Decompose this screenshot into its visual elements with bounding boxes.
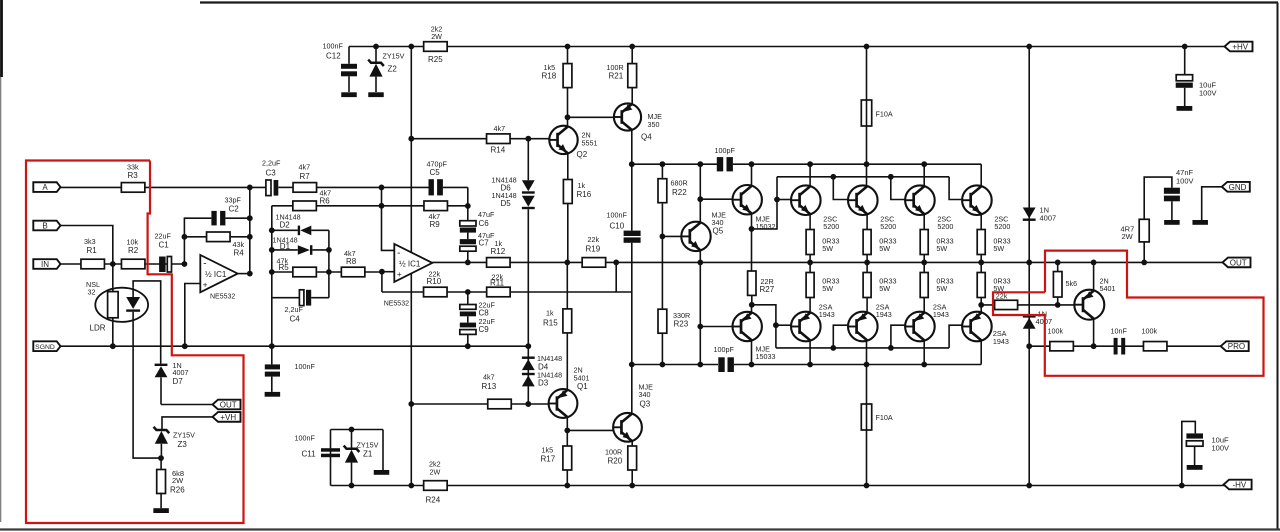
node D2 left — [269, 227, 275, 233]
node D3 join — [525, 401, 531, 407]
node C15 top — [1182, 44, 1188, 50]
svg-text:½ IC1: ½ IC1 — [399, 259, 421, 268]
svg-text:C3: C3 — [266, 169, 277, 178]
svg-text:R22: R22 — [672, 188, 687, 197]
node Q8 collector — [807, 161, 813, 167]
svg-text:+: + — [397, 269, 402, 279]
svg-text:1k: 1k — [546, 308, 554, 317]
node R22 top — [660, 161, 666, 167]
svg-text:4k7: 4k7 — [483, 373, 495, 382]
svg-text:680R: 680R — [671, 179, 688, 188]
svg-text:1943: 1943 — [933, 310, 949, 319]
node Z1 top — [349, 427, 355, 433]
opto LED — [132, 288, 134, 297]
diode D8 1N4007 upper clamp — [1028, 47, 1030, 263]
wire SGND line — [61, 345, 529, 347]
node C7 output — [465, 260, 471, 266]
node R17 bottom — [564, 483, 570, 489]
node Q9 base feed — [830, 174, 836, 180]
svg-text:4k7: 4k7 — [299, 163, 311, 172]
wire feedback line — [382, 291, 616, 293]
opto NSL32 LDR — [112, 264, 114, 288]
capacitor C10 100nF — [631, 164, 633, 230]
svg-text:1943: 1943 — [819, 310, 835, 319]
wire R7 node to R6 node — [381, 187, 383, 205]
wire op-amp1 non-inverting to SGND — [185, 284, 201, 347]
svg-text:R1: R1 — [87, 246, 98, 255]
svg-text:R15: R15 — [543, 319, 558, 328]
ground Z2 — [368, 92, 384, 97]
capacitor C5 470pF — [429, 179, 434, 195]
op-amp U1B half NE5532 — [394, 244, 432, 282]
svg-text:R8: R8 — [346, 257, 357, 266]
svg-text:+HV: +HV — [1232, 43, 1248, 52]
svg-text:C9: C9 — [479, 325, 490, 334]
svg-text:1943: 1943 — [876, 310, 892, 319]
svg-text:100nF: 100nF — [607, 210, 628, 219]
resistor R31 100k — [1143, 342, 1167, 351]
svg-text:SGND: SGND — [35, 344, 55, 351]
resistor R emitter 0R33 5W lower Q14 — [866, 262, 868, 272]
svg-text:NE5532: NE5532 — [210, 293, 235, 300]
node Z3 R26 — [158, 455, 164, 461]
svg-text:LDR: LDR — [90, 324, 106, 333]
resistor R emitter 0R33 5W lower Q16 — [980, 262, 982, 272]
diode D4 1N4148 — [522, 357, 535, 359]
node op-amp1 output — [247, 271, 253, 277]
svg-text:5551: 5551 — [582, 138, 598, 147]
node Q3 collector rail — [629, 362, 635, 368]
wire C5 R9 right node — [467, 187, 469, 221]
node R9 right — [465, 203, 471, 209]
wire D5 to SGND — [527, 209, 529, 346]
svg-text:B: B — [42, 222, 47, 231]
wire Q4 base — [568, 116, 615, 118]
resistor R17 1k5 — [563, 446, 572, 470]
svg-text:-: - — [203, 259, 206, 270]
node A feedback junction — [247, 185, 253, 191]
resistor R7 4k7 — [293, 183, 317, 193]
wire op-amp1 feedback vertical — [184, 218, 211, 264]
resistor R10 22k — [424, 287, 448, 297]
fuse F2 F10A lower — [866, 365, 868, 486]
svg-text:100k: 100k — [1142, 326, 1158, 335]
node Q9 collector F10A — [864, 161, 870, 167]
capacitor C4 2.2uF — [272, 297, 300, 299]
connector B — [33, 221, 60, 231]
svg-text:R16: R16 — [577, 190, 592, 199]
capacitor C2 33pF — [211, 211, 216, 226]
diode D1 1N4148 — [272, 249, 298, 251]
resistor R1 3k3 — [81, 259, 105, 269]
capacitor C17 100pF lower — [718, 357, 724, 372]
connector +HV — [1225, 42, 1253, 52]
wire op-amp2 plus stub — [382, 271, 394, 273]
capacitor C13 100nF decoupling — [271, 346, 273, 364]
resistor R8 4k7 — [341, 267, 365, 277]
svg-text:100nF: 100nF — [295, 434, 316, 443]
svg-text:1k5: 1k5 — [542, 446, 554, 455]
svg-text:OUT: OUT — [1230, 258, 1247, 267]
svg-text:15033: 15033 — [756, 352, 776, 361]
svg-text:C5: C5 — [430, 168, 441, 177]
wire VAS upper rail — [632, 163, 717, 165]
transistor Q6 MJE15032 driver — [733, 185, 762, 214]
svg-text:100pF: 100pF — [715, 146, 736, 155]
svg-text:4k7: 4k7 — [494, 124, 506, 133]
svg-text:½ IC1: ½ IC1 — [205, 270, 227, 279]
wire Q16 base feed — [949, 325, 962, 348]
ground C15 — [1177, 106, 1193, 111]
connector OUT right — [1223, 258, 1251, 268]
node F10A top — [864, 44, 870, 50]
node Q13 base feed — [773, 322, 779, 328]
svg-text:R24: R24 — [426, 496, 441, 505]
svg-text:C10: C10 — [610, 221, 625, 230]
ground C13 — [265, 392, 281, 397]
wire C7 to output line — [467, 251, 469, 262]
svg-text:5200: 5200 — [823, 222, 839, 231]
wire +VH to Z3 — [162, 417, 214, 429]
svg-text:2,2uF: 2,2uF — [262, 159, 281, 168]
ground C11 Z1 — [382, 430, 384, 471]
capacitor C1 22uF — [159, 257, 166, 273]
ground C12 — [341, 92, 357, 97]
node sense tap — [978, 302, 984, 308]
node D1 right — [326, 247, 332, 253]
resistor R14 4k7 — [487, 134, 511, 144]
svg-text:R3: R3 — [128, 171, 139, 180]
svg-text:5200: 5200 — [880, 222, 896, 231]
node C8 top — [465, 289, 471, 295]
resistor R30 100k — [1050, 342, 1074, 351]
node driver emitter tee — [749, 226, 755, 232]
svg-text:R18: R18 — [542, 72, 557, 81]
svg-text:R20: R20 — [608, 456, 623, 465]
node Q7 emitter out — [1091, 260, 1097, 266]
svg-text:100nF: 100nF — [295, 362, 316, 371]
node D3 bottom — [525, 401, 531, 407]
svg-text:R11: R11 — [490, 279, 505, 288]
red outline left input block — [26, 161, 244, 524]
svg-text:ZY15V: ZY15V — [357, 441, 379, 450]
node R16 R15 — [564, 260, 570, 266]
svg-text:GND: GND — [1229, 183, 1247, 192]
svg-text:R7: R7 — [300, 172, 311, 181]
svg-text:2W: 2W — [431, 32, 442, 41]
svg-text:D1: D1 — [280, 242, 291, 251]
svg-text:Z2: Z2 — [388, 65, 398, 74]
connector GND — [1222, 182, 1250, 192]
node 5k6 output — [1055, 260, 1061, 266]
node Q10 collector — [921, 161, 927, 167]
svg-text:1k: 1k — [578, 181, 586, 190]
connector OUT left — [213, 400, 241, 410]
svg-text:5W: 5W — [993, 244, 1004, 253]
svg-text:Q2: Q2 — [577, 150, 588, 159]
node Q8 base feed — [774, 197, 780, 203]
transistor Q12 MJE15033 driver — [752, 305, 776, 348]
resistor R22 680R — [661, 164, 663, 178]
resistor R3 33k — [121, 183, 145, 193]
svg-text:3k3: 3k3 — [84, 237, 96, 246]
node clamp output — [1026, 260, 1032, 266]
resistor R13 4k7 — [488, 399, 512, 409]
wire GND connector to ground — [1202, 187, 1222, 220]
node Q5 collector top — [697, 161, 703, 167]
ground C19 — [1164, 220, 1180, 225]
node LDR SGND — [110, 343, 116, 349]
wire op-amp1 output — [237, 273, 250, 275]
node MJE15033 collector rail — [749, 362, 755, 368]
node MJE15032 collector — [749, 161, 755, 167]
node Q15 collector F10A — [864, 362, 870, 368]
svg-text:ZY15V: ZY15V — [173, 430, 195, 439]
diode D3 1N4148 — [522, 373, 535, 375]
resistor R4 43k — [207, 232, 231, 242]
capacitor C15 10uF 100V plus rail — [1184, 47, 1186, 75]
svg-text:C4: C4 — [290, 315, 301, 324]
svg-text:D3: D3 — [538, 379, 549, 388]
svg-text:100R: 100R — [607, 63, 624, 72]
svg-text:100V: 100V — [1212, 443, 1230, 452]
wire VAS lower rail — [632, 364, 718, 366]
resistor R emitter 0R33 5W upper Q9 — [866, 214, 868, 230]
svg-text:1943: 1943 — [993, 337, 1009, 346]
wire -HV bottom rail — [331, 485, 1227, 487]
resistor R21 100R — [631, 47, 633, 64]
svg-text:C11: C11 — [302, 450, 317, 459]
wire D7 to OUT connector — [161, 404, 214, 406]
transistor Q4 MJE350 — [614, 103, 641, 130]
svg-text:+: + — [203, 280, 208, 290]
node F10A bottom — [864, 483, 870, 489]
wire current sense line — [981, 304, 1074, 306]
svg-text:R17: R17 — [541, 454, 556, 463]
svg-text:100nF: 100nF — [323, 42, 344, 51]
svg-text:100k: 100k — [1048, 326, 1064, 335]
resistor R emitter 0R33 5W lower Q15 — [923, 262, 925, 272]
wire D4 D3 chain — [527, 346, 529, 404]
node Q15 base feed — [888, 345, 894, 351]
wire R6 node to op-amp2 inverting — [382, 206, 395, 251]
wire op-amp2 output line — [432, 261, 1222, 263]
node Q10 base feed — [888, 174, 894, 180]
node IN junction — [110, 261, 116, 267]
node driver emitter lower tee — [749, 302, 755, 308]
svg-text:5401: 5401 — [1100, 284, 1116, 293]
transistor Q16 2SA1943 — [962, 312, 992, 342]
transistor Q13 2SA1943 — [791, 312, 821, 342]
node R4 right — [247, 234, 253, 240]
svg-text:22k: 22k — [588, 235, 600, 244]
wire MJE15033 collector — [751, 340, 753, 365]
page border frame — [200, 1, 1278, 3]
node op-amp1 plus SGND — [182, 343, 188, 349]
node -15V rail bottom — [408, 483, 414, 489]
transistor Q3 MJE340 — [613, 413, 642, 442]
wire LED anode up-over to D7 — [133, 281, 161, 364]
capacitor C3 2.2uF — [266, 180, 271, 196]
node R14 left — [408, 136, 414, 142]
resistor R28 5k6 — [1057, 262, 1059, 271]
svg-text:C6: C6 — [479, 219, 490, 228]
svg-text:R26: R26 — [170, 486, 185, 495]
capacitor C12 100nF — [348, 47, 350, 64]
svg-text:NE5532: NE5532 — [384, 300, 409, 307]
diode D9 1N4007 lower clamp — [1028, 262, 1030, 485]
node D6 top — [525, 136, 531, 142]
node output to VAS jog — [613, 260, 619, 266]
svg-text:5W: 5W — [879, 284, 890, 293]
node C16 bottom — [1179, 483, 1185, 489]
svg-text:Z3: Z3 — [178, 440, 188, 449]
capacitor C7 47uF — [467, 233, 469, 240]
node D9 bottom — [1026, 483, 1032, 489]
node R23 bottom — [660, 362, 666, 368]
wire Q7 emitter to output — [1093, 262, 1095, 290]
svg-text:4007: 4007 — [173, 368, 189, 377]
resistor R18 1k5 — [567, 47, 569, 64]
zener Z2 ZY15V — [375, 47, 377, 63]
node Z2 top — [373, 44, 379, 50]
connector SGND — [33, 341, 60, 351]
node Z1 bottom — [349, 483, 355, 489]
op-amp U1A half NE5532 — [200, 255, 237, 292]
wire LED cathode down to Z3 node — [133, 322, 161, 458]
wire +HV top rail — [349, 46, 1226, 48]
node output rail junctions — [807, 260, 813, 266]
svg-text:C1: C1 — [159, 241, 170, 250]
ground GND flag — [1192, 220, 1208, 225]
svg-text:100V: 100V — [1199, 88, 1217, 97]
fuse F1 F10A upper — [866, 47, 868, 165]
node R7 C5 junction — [379, 185, 385, 191]
svg-text:5k6: 5k6 — [1066, 279, 1078, 288]
wire base rail lower — [776, 347, 949, 349]
wire jog output to VAS — [616, 262, 632, 292]
resistor R20 100R — [631, 441, 633, 446]
svg-text:R13: R13 — [482, 382, 497, 391]
svg-text:5200: 5200 — [994, 222, 1010, 231]
svg-text:2W: 2W — [172, 476, 184, 485]
svg-text:Q1: Q1 — [577, 382, 588, 391]
transistor Q11 2SC5200 — [962, 185, 992, 215]
svg-text:A: A — [42, 183, 48, 192]
capacitor C6 47uF — [460, 221, 476, 226]
diode D5 1N4148 — [522, 196, 535, 207]
wire B to IN junction — [61, 226, 113, 265]
node Q3 base tee — [564, 428, 570, 434]
svg-text:D5: D5 — [501, 199, 512, 208]
svg-text:5W: 5W — [936, 244, 947, 253]
diode D7 1N4007 — [155, 364, 168, 366]
node +15V rail top — [408, 44, 414, 50]
node MJE15032 base tap — [697, 196, 703, 202]
svg-text:22uF: 22uF — [155, 232, 172, 241]
resistor R23 330R — [658, 309, 667, 333]
svg-text:R19: R19 — [586, 244, 601, 253]
svg-text:32: 32 — [88, 288, 96, 297]
connector -HV — [1224, 480, 1252, 490]
wire R14 base line — [411, 138, 549, 140]
capacitor C19 47nF 100V zobel — [1164, 188, 1180, 194]
node D1 left — [269, 247, 275, 253]
red outline protection block — [993, 251, 1264, 376]
svg-text:R5: R5 — [279, 263, 290, 272]
resistor R2 10k — [121, 259, 145, 269]
wire Q11 base feed — [949, 177, 962, 200]
wire C11 Z1 top link — [331, 429, 384, 431]
wire input line IN — [61, 263, 185, 265]
resistor R26 6k8 2W — [160, 458, 162, 470]
node Q16 collector — [921, 362, 927, 368]
svg-text:C2: C2 — [229, 205, 240, 214]
node R5 left — [269, 269, 275, 275]
node MJE15033 base tap — [697, 324, 703, 330]
node Q4 collector — [629, 161, 635, 167]
node diode chain SGND — [525, 343, 531, 349]
svg-text:R23: R23 — [674, 319, 689, 328]
svg-text:D7: D7 — [173, 377, 184, 386]
svg-text:2W: 2W — [1122, 232, 1134, 241]
resistor R16 1k — [567, 154, 569, 180]
wire base rail upper — [777, 176, 949, 178]
svg-text:340: 340 — [639, 390, 651, 399]
svg-text:-: - — [397, 248, 400, 259]
transistor Q9 2SC5200 — [848, 185, 878, 215]
wire plus node to feedback line — [381, 272, 383, 292]
svg-text:5200: 5200 — [937, 222, 953, 231]
svg-text:R9: R9 — [430, 220, 441, 229]
wire op-amp1 feedback right vertical — [249, 187, 251, 273]
node Q5 emitter output — [697, 260, 703, 266]
svg-text:R2: R2 — [128, 246, 139, 255]
node Q14 collector — [807, 362, 813, 368]
resistor R11 22k — [487, 287, 511, 297]
svg-text:Q4: Q4 — [641, 133, 652, 142]
wire collector rail lower — [752, 364, 982, 366]
wire Q5 emitter column — [699, 251, 701, 365]
svg-text:15032: 15032 — [756, 222, 776, 231]
svg-text:Q3: Q3 — [640, 399, 651, 408]
connector A — [33, 182, 60, 192]
resistor R6 4k7 — [272, 205, 293, 207]
svg-text:100R: 100R — [605, 448, 622, 457]
node 5k6 base — [1055, 302, 1061, 308]
transistor Q5 MJE340 bias — [699, 164, 701, 222]
svg-text:Z1: Z1 — [363, 450, 373, 459]
node R20 bottom — [629, 483, 635, 489]
node Q4 base tee — [565, 114, 571, 120]
resistor R emitter 0R33 5W upper Q8 — [809, 214, 811, 230]
svg-text:350: 350 — [648, 120, 660, 129]
capacitor C14 100pF upper — [717, 157, 723, 171]
svg-text:R6: R6 — [320, 196, 331, 205]
svg-text:R14: R14 — [491, 146, 506, 155]
wire diode ladder right rail — [328, 230, 330, 297]
ground C16 — [1187, 465, 1203, 470]
diode D6 1N4148 — [522, 180, 535, 191]
node R6 R9 junction — [379, 203, 385, 209]
transistor Q15 2SA1943 — [905, 312, 935, 342]
resistor R emitter 0R33 5W upper Q10 — [923, 214, 925, 230]
connector +VH — [213, 412, 241, 422]
svg-text:5W: 5W — [879, 244, 890, 253]
svg-text:100V: 100V — [1176, 177, 1194, 186]
resistor R24 2k2 2W — [424, 481, 448, 491]
node C2 right — [247, 215, 253, 221]
